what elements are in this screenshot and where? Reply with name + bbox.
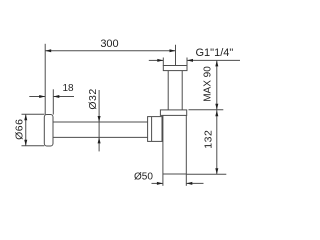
svg-text:Ø66: Ø66: [14, 119, 26, 140]
svg-text:300: 300: [100, 38, 118, 50]
svg-text:18: 18: [62, 83, 74, 94]
svg-text:Ø50: Ø50: [134, 172, 153, 183]
svg-text:MAX 90: MAX 90: [203, 66, 214, 102]
svg-text:132: 132: [203, 130, 215, 149]
svg-text:Ø32: Ø32: [87, 88, 99, 109]
svg-text:G1"1/4": G1"1/4": [196, 47, 234, 59]
